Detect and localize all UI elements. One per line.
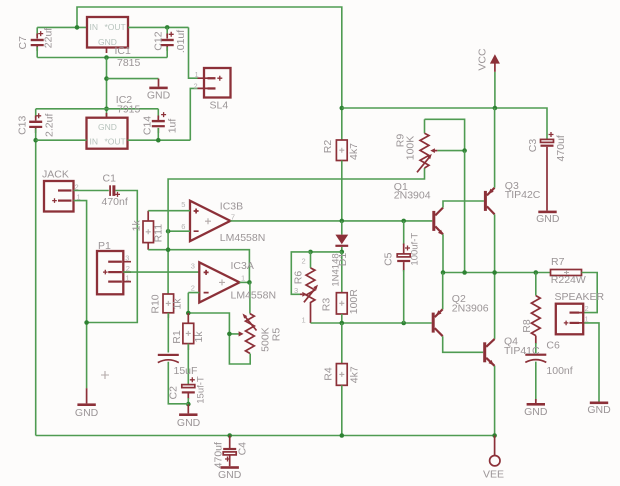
svg-text:C6: C6: [546, 339, 560, 351]
svg-text:GND: GND: [587, 404, 611, 416]
svg-text:470nf: 470nf: [102, 196, 128, 208]
svg-text:1k: 1k: [172, 298, 184, 310]
svg-text:R4: R4: [323, 367, 335, 381]
resistor R4: [336, 323, 347, 436]
svg-text:GND: GND: [177, 417, 201, 429]
svg-text:IN: IN: [90, 137, 99, 147]
node: junction at IC1 IN: [75, 25, 80, 30]
ground: GND below C4: [218, 466, 242, 481]
wire: C7 / IC1 IN: [37, 26, 87, 28]
capacitor C2: [182, 377, 195, 399]
svg-text:1: 1: [585, 314, 589, 323]
wire: left rail down to bottom: [35, 129, 37, 436]
ground: GND near SL4: [147, 79, 171, 102]
resistor R2: [336, 140, 347, 161]
capacitor C5: [397, 221, 410, 323]
svg-text:2: 2: [585, 304, 589, 313]
svg-text:7915: 7915: [117, 104, 141, 116]
resistor R3: [336, 293, 347, 314]
capacitor C1: [109, 185, 120, 197]
power VCC symbol: [490, 54, 500, 108]
svg-text:2: 2: [302, 257, 306, 266]
node: junction - input / R1 / R5: [186, 311, 191, 316]
node: junction IC1 GND: [104, 55, 109, 60]
node: junction R9 wiper: [462, 148, 467, 153]
svg-text:15uf-T: 15uf-T: [196, 376, 207, 404]
wire: branch to GND symbol: [107, 78, 159, 80]
potentiometer R6: [291, 252, 318, 325]
node: junction R2 top / VCC rail: [340, 106, 345, 111]
wire: R10 bottom to C8: [167, 313, 169, 353]
wire: P1 pin2 to IC3A + input: [123, 271, 199, 273]
resistor R7 R224W: [551, 270, 582, 276]
svg-text:C2: C2: [168, 386, 180, 400]
svg-text:4k7: 4k7: [348, 143, 360, 160]
capacitor C7: [31, 27, 44, 57]
svg-text:3: 3: [191, 262, 195, 271]
svg-text:1k: 1k: [131, 220, 143, 232]
node: junction C5 bottom: [401, 321, 406, 326]
potentiometer R9 100K: [417, 119, 465, 172]
svg-text:IC3B: IC3B: [220, 200, 243, 212]
node: junction C4: [227, 433, 232, 438]
wire: IC1 OUT to SL4 pin1: [128, 27, 198, 78]
svg-text:R3: R3: [321, 298, 333, 312]
wire: Q2 collector to Q4 base: [443, 336, 484, 352]
svg-text:GND: GND: [536, 213, 560, 225]
svg-text:C12: C12: [153, 31, 165, 50]
capacitor C6: [525, 354, 546, 402]
svg-text:GND: GND: [75, 407, 99, 419]
svg-text:R6: R6: [293, 271, 305, 285]
svg-text:100K: 100K: [405, 136, 417, 161]
ground: GND below speaker: [587, 402, 611, 417]
wire: C8 bottom to ground node: [168, 362, 188, 404]
wire: IC3B output to Q1 base: [230, 220, 432, 222]
svg-text:IC1: IC1: [115, 45, 132, 57]
svg-text:C3: C3: [527, 139, 539, 153]
svg-text:R11: R11: [153, 224, 165, 243]
wire: Q3/Q4 collector column: [494, 214, 496, 339]
ground: GND below C3: [536, 211, 560, 225]
wire: IC3A output down to R5: [249, 282, 251, 313]
svg-text:100uf-T: 100uf-T: [410, 233, 421, 266]
svg-text:1k: 1k: [193, 331, 205, 343]
wire: JACK pin1 down to GND: [74, 201, 87, 389]
wire: VCC rail to C3: [342, 108, 547, 139]
node: junction mid rail: [104, 107, 109, 112]
svg-text:7: 7: [231, 212, 235, 221]
wire: IC3B - input: [168, 230, 190, 232]
svg-text:1: 1: [126, 274, 130, 283]
node: junction C14 bottom: [156, 138, 161, 143]
resistor R1: [183, 313, 194, 350]
svg-text:22uf: 22uf: [43, 28, 55, 49]
node: junction R3/R4: [340, 321, 345, 326]
resistor R8: [531, 273, 540, 354]
wire: bottom VEE rail: [36, 435, 495, 437]
potentiometer R5 500K: [239, 314, 257, 354]
capacitor C3: [541, 132, 554, 211]
IC regulator IC1 7815: [87, 17, 128, 53]
wire: R7 to speaker pin2: [582, 273, 598, 313]
svg-text:R7: R7: [551, 256, 565, 268]
transistor Q4 TIP41C: [483, 339, 494, 366]
resistor R11: [143, 211, 154, 250]
svg-text:GND: GND: [147, 89, 171, 101]
wire: speaker pin1 to GND: [583, 323, 599, 402]
wire: R11 bottom / IC3A output tie: [148, 250, 249, 283]
node: junction C5 top: [401, 219, 406, 224]
wire: feedback from R9 bottom to inverting node and R10: [168, 168, 424, 294]
svg-text:LM4558N: LM4558N: [220, 232, 266, 244]
connector SPEAKER: [556, 304, 589, 335]
op-amp IC3A: [191, 262, 245, 303]
svg-text:VCC: VCC: [477, 48, 489, 71]
svg-text:1: 1: [302, 316, 306, 325]
svg-text:C4: C4: [237, 442, 249, 456]
wire: JACK pin2 to C1: [74, 190, 109, 192]
wire: C2 bottom: [187, 398, 189, 404]
wire: C13 / IC2 rail: [36, 108, 159, 110]
wire: IC2 IN: [36, 139, 87, 141]
wire: Q1 collector to Q3 base: [443, 201, 484, 208]
svg-text:GND: GND: [524, 406, 548, 418]
node: origin cross near GND: [101, 371, 109, 379]
connector SL4: [194, 68, 231, 98]
wire: top input rail to R2 column: [77, 7, 342, 140]
svg-text:SL4: SL4: [210, 99, 229, 111]
svg-text:C14: C14: [142, 116, 154, 135]
svg-text:TIP41C: TIP41C: [504, 345, 540, 357]
svg-text:*OUT: *OUT: [105, 137, 126, 147]
ground: GND input column: [75, 388, 99, 419]
svg-text:D1: D1: [337, 253, 349, 267]
svg-text:3: 3: [125, 254, 129, 263]
svg-text:GND: GND: [218, 469, 242, 481]
node: junction - input: [166, 229, 171, 234]
wire: IC2 OUT to SL4 pin2: [128, 88, 198, 140]
wire: R3 bottom: [341, 314, 343, 323]
wire: IC1 GND down to IC2: [106, 58, 108, 118]
wire: IC1 GND rail: [37, 57, 167, 59]
svg-text:2N3906: 2N3906: [452, 302, 489, 314]
svg-text:C13: C13: [17, 116, 29, 135]
op-amp IC3B: [181, 200, 235, 241]
node: junction R8 top: [534, 270, 539, 275]
svg-text:470uf: 470uf: [213, 442, 225, 468]
svg-text:C7: C7: [17, 36, 29, 50]
wire: C1 to P1 pins 3,1 and ground line: [87, 191, 138, 323]
node: junction at C12: [165, 25, 170, 30]
transistor Q2 2N3906: [432, 309, 443, 336]
wire: R2 bottom to base rail: [341, 161, 343, 221]
svg-text:470uf: 470uf: [555, 135, 567, 161]
wire: Q3 emitter to VCC: [494, 108, 496, 188]
svg-text:15uF: 15uF: [174, 365, 198, 377]
capacitor C8 15uF: [158, 354, 179, 363]
svg-text:C5: C5: [383, 252, 395, 266]
transistor Q3 TIP42C: [484, 188, 495, 215]
wire: Q4 emitter to VEE rail: [494, 366, 496, 436]
svg-text:7815: 7815: [117, 57, 141, 69]
svg-text:IC3A: IC3A: [231, 260, 254, 272]
wire: Q1 emitter down: [442, 234, 444, 272]
wire: IC3B + input: [148, 210, 190, 212]
svg-text:5: 5: [181, 200, 185, 209]
svg-text:R8: R8: [521, 319, 533, 333]
node: junction VCC: [493, 106, 498, 111]
svg-text:2.2uf: 2.2uf: [44, 114, 56, 137]
wire: IC3A output stub: [240, 281, 250, 283]
wire: R1 bottom to C2: [187, 344, 189, 385]
node: junction R6 top: [308, 250, 313, 255]
svg-text:TIP42C: TIP42C: [505, 189, 541, 201]
svg-text:GND: GND: [98, 122, 117, 132]
svg-text:6: 6: [181, 222, 185, 231]
svg-text:2N3904: 2N3904: [394, 189, 431, 201]
svg-text:2: 2: [194, 82, 198, 91]
node: junction R11/feedback: [166, 247, 171, 252]
svg-text:1: 1: [241, 273, 245, 282]
ground: GND below C6: [524, 399, 548, 418]
capacitor C4: [223, 436, 236, 467]
svg-text:SPEAKER: SPEAKER: [555, 291, 605, 303]
svg-text:*OUT: *OUT: [105, 22, 126, 32]
svg-text:3: 3: [294, 286, 298, 295]
capacitor C13: [29, 109, 42, 133]
diode D1 1N4148: [335, 221, 348, 252]
svg-text:2: 2: [191, 284, 195, 293]
node: junction output collectors: [492, 270, 497, 275]
capacitor C14: [152, 109, 166, 140]
node: junction C2/C8 ground: [186, 402, 191, 407]
wire: D1 to R3: [341, 252, 343, 293]
power VEE terminal: [490, 436, 500, 466]
svg-text:R2: R2: [322, 140, 334, 154]
wire: Q2 emitter up: [442, 273, 444, 310]
transistor Q1 2N3904: [432, 208, 443, 236]
svg-text:IN: IN: [90, 22, 99, 32]
svg-text:1uf: 1uf: [167, 119, 179, 134]
node: junction Q1/Q2 emitters: [441, 270, 446, 275]
svg-text:100nf: 100nf: [546, 365, 572, 377]
node: junction D1 cathode: [340, 250, 345, 255]
svg-text:P1: P1: [98, 240, 111, 252]
node: junction GND branch: [104, 76, 109, 81]
capacitor C12: [161, 27, 174, 57]
svg-text:VEE: VEE: [483, 468, 504, 480]
svg-text:R10: R10: [149, 294, 161, 313]
svg-text:100R: 100R: [348, 289, 360, 315]
node: junction Q1 base / bias: [340, 219, 345, 224]
wire: IC3A - input to R5 wiper / R1: [188, 293, 250, 364]
node: junction R9 drop: [462, 270, 467, 275]
connector P1: [97, 251, 131, 294]
svg-text:R224W: R224W: [551, 274, 586, 286]
node: junction VEE: [492, 433, 497, 438]
wire: output rail: [443, 272, 551, 274]
node: junction R4 bottom: [340, 433, 345, 438]
resistor R10: [163, 294, 174, 318]
svg-text:C1: C1: [103, 173, 117, 185]
svg-text:JACK: JACK: [42, 169, 69, 181]
node: junction P1 ground: [84, 320, 89, 325]
svg-text:4k7: 4k7: [349, 366, 361, 383]
IC regulator IC2 7915: [87, 113, 128, 149]
wire: lower bias rail to Q2 base: [311, 322, 432, 324]
wire: R9 wiper down to output rail: [464, 151, 466, 273]
svg-text:LM4558N: LM4558N: [231, 290, 277, 302]
svg-text:R5: R5: [271, 328, 283, 342]
svg-text:.01uf: .01uf: [175, 30, 187, 53]
svg-text:R1: R1: [171, 330, 183, 344]
wire: D1 to R6: [311, 251, 342, 253]
node: junction C13 bottom: [33, 138, 38, 143]
node: junction IC3A output: [247, 280, 252, 285]
connector JACK: [44, 181, 81, 212]
svg-text:1: 1: [195, 70, 199, 79]
node: junction R5 wiper: [227, 332, 232, 337]
ground: GND below C2: [177, 404, 201, 429]
